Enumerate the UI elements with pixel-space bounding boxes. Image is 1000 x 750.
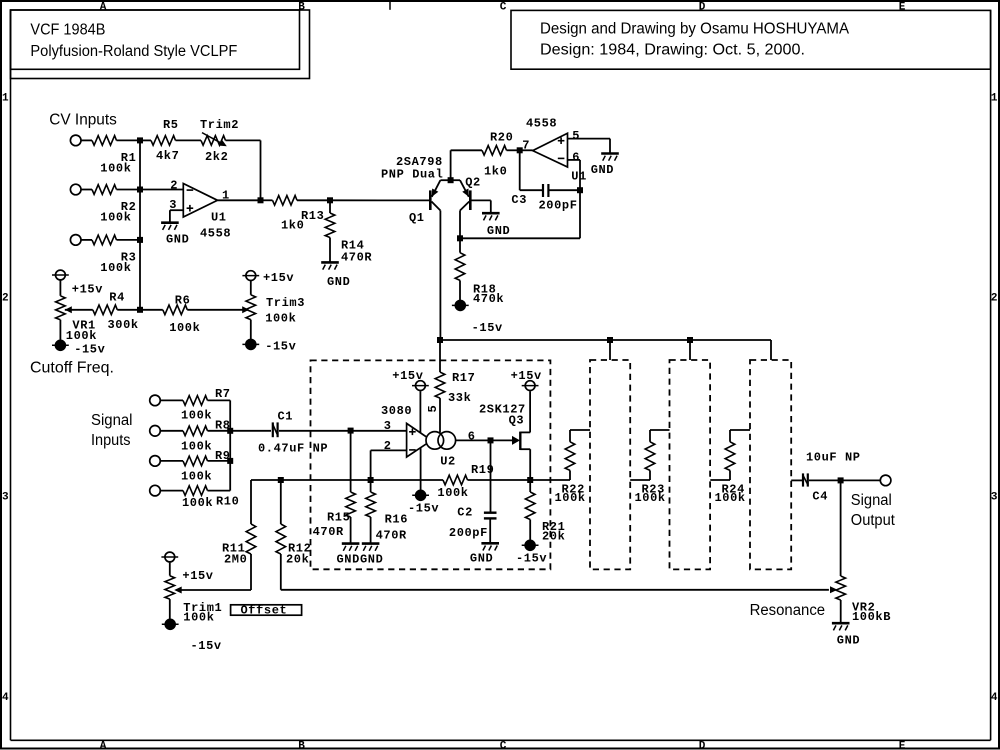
wire (stage feed rail) — [440, 339, 771, 341]
border column letter E top — [899, 1, 906, 13]
node Q3 source junction — [527, 477, 533, 483]
label -15v — [265, 340, 296, 354]
label pin 7 — [522, 139, 530, 153]
wire — [459, 238, 461, 252]
credit text line 2 — [540, 42, 805, 59]
label Trim2 — [200, 118, 239, 132]
border column letter D bottom — [699, 740, 706, 750]
svg-text:4558: 4558 — [526, 117, 557, 131]
svg-text:6: 6 — [468, 429, 476, 443]
wire — [176, 139, 202, 141]
wire — [609, 340, 611, 360]
wire — [160, 460, 183, 462]
svg-text:GND: GND — [337, 553, 360, 567]
svg-text:3: 3 — [991, 492, 998, 504]
svg-text:100k: 100k — [181, 409, 212, 423]
svg-text:100kB: 100kB — [852, 610, 891, 624]
svg-text:2: 2 — [170, 178, 178, 192]
svg-text:4: 4 — [2, 692, 9, 704]
wire — [370, 480, 372, 492]
resistor R2 — [92, 185, 117, 195]
label R18 value 470k — [473, 292, 504, 306]
label R16 — [385, 513, 408, 527]
signal input jack 4 — [150, 485, 161, 496]
wire — [840, 480, 842, 576]
capacitor C4 — [803, 473, 808, 486]
svg-text:100k: 100k — [182, 496, 213, 510]
op-amp U2 (3080 OTA) — [407, 423, 456, 457]
label R5 — [163, 118, 179, 132]
label C3 — [511, 193, 527, 207]
wire — [179, 589, 252, 591]
power +15v (Q3) — [522, 381, 539, 391]
node U2 pin3 junction — [348, 428, 354, 434]
svg-text:Trim2: Trim2 — [200, 118, 239, 132]
wire — [519, 150, 521, 190]
wire — [226, 139, 261, 141]
node op-amp output — [258, 197, 264, 203]
label VR1 value 100k — [66, 329, 97, 343]
wire — [470, 199, 491, 201]
resistor R6 — [163, 305, 188, 315]
label R23 — [642, 483, 665, 497]
Trim1 wiper arrow — [174, 587, 182, 594]
wire — [530, 479, 570, 481]
svg-text:-15v: -15v — [408, 502, 439, 516]
resistor R4 — [93, 305, 118, 315]
svg-text:+15v: +15v — [72, 283, 103, 297]
label R21 — [542, 520, 565, 534]
label Output — [851, 512, 896, 529]
resistor R3 — [92, 235, 117, 245]
label R20 — [490, 131, 513, 145]
svg-text:3080: 3080 — [381, 404, 412, 418]
node pin7 junction — [517, 147, 523, 153]
label R12 value 20k — [286, 553, 309, 567]
wire — [710, 479, 730, 481]
svg-text:Signal: Signal — [851, 492, 892, 509]
wire — [208, 399, 231, 401]
resistor R20 — [482, 146, 507, 156]
wire — [649, 430, 651, 442]
svg-text:300k: 300k — [108, 318, 139, 332]
wire (resonance feedback) — [281, 589, 829, 591]
label GND — [470, 552, 493, 566]
wire — [520, 149, 533, 151]
border column letter A top — [100, 1, 107, 13]
svg-text:+15v: +15v — [511, 369, 542, 383]
wire — [809, 479, 841, 481]
wire — [459, 211, 461, 239]
node CV bus 2 — [137, 187, 143, 193]
border row number 2 left — [2, 292, 9, 304]
svg-text:U2: U2 — [440, 454, 456, 468]
label pin 6 — [572, 150, 580, 164]
label +15v — [72, 283, 103, 297]
wire — [261, 199, 273, 201]
wire — [459, 280, 461, 300]
wire — [529, 391, 531, 432]
label GND — [327, 275, 350, 289]
svg-text:B: B — [298, 1, 305, 13]
label U1 — [211, 211, 227, 225]
label R13 — [301, 209, 324, 223]
signal input jack 1 — [150, 395, 161, 406]
resistor R15 — [346, 492, 356, 517]
border inner frame right line — [990, 10, 992, 740]
label R18 — [473, 283, 496, 297]
svg-text:C2: C2 — [457, 506, 473, 520]
wire — [450, 150, 452, 180]
power +15v (VR1) — [52, 270, 69, 280]
label 2SK127 — [479, 402, 526, 416]
svg-text:A: A — [100, 1, 107, 13]
border inner frame left line — [10, 10, 12, 740]
border row number 1 left — [2, 93, 9, 105]
svg-text:6: 6 — [572, 150, 580, 164]
node R16 junction — [368, 477, 374, 483]
Trim3 wiper arrow — [242, 306, 249, 313]
wire — [650, 429, 670, 431]
svg-text:0.47uF NP: 0.47uF NP — [258, 442, 328, 456]
label +15v — [511, 369, 542, 383]
svg-text:VCF 1984B: VCF 1984B — [30, 21, 105, 38]
label pin 1 — [222, 188, 230, 202]
label C1 — [278, 410, 294, 424]
svg-text:Cutoff Freq.: Cutoff Freq. — [30, 360, 114, 377]
svg-text:100k: 100k — [181, 440, 212, 454]
svg-text:D: D — [699, 740, 706, 750]
wire — [791, 479, 802, 481]
label +15v — [182, 569, 213, 583]
label Resonance — [750, 602, 826, 619]
signal output jack — [880, 475, 891, 486]
svg-text:1: 1 — [991, 93, 998, 105]
svg-text:1k0: 1k0 — [281, 219, 304, 233]
label R15 value 470R — [313, 525, 344, 539]
label R21 value 20k — [542, 530, 565, 544]
label pin 3 — [169, 198, 177, 212]
node signal bus R9 — [227, 458, 233, 464]
title block box — [11, 10, 300, 69]
resistor R23 — [645, 442, 655, 471]
label pin 5 (rotated) — [426, 405, 440, 413]
wire — [250, 281, 252, 295]
svg-text:4k7: 4k7 — [156, 149, 179, 163]
svg-text:2: 2 — [991, 292, 998, 304]
node U2 output — [488, 437, 494, 443]
svg-text:100k: 100k — [715, 491, 746, 505]
svg-text:Design: 1984, Drawing: Oct. 5: Design: 1984, Drawing: Oct. 5, 2000. — [540, 42, 805, 59]
wire — [371, 449, 407, 451]
VR1 wiper arrow — [65, 306, 72, 313]
wire — [297, 199, 330, 201]
svg-text:R4: R4 — [109, 291, 125, 305]
label 4558 — [200, 227, 231, 241]
wire — [170, 209, 183, 211]
svg-text:4558: 4558 — [200, 227, 231, 241]
wire — [730, 429, 750, 431]
svg-text:R5: R5 — [163, 118, 179, 132]
wire — [570, 429, 590, 431]
wire — [468, 479, 531, 481]
label CV Inputs — [49, 112, 117, 129]
potentiometer VR1 — [56, 296, 66, 320]
node rail 1 — [437, 337, 443, 343]
svg-text:A: A — [100, 740, 107, 750]
label R22 — [562, 483, 585, 497]
label -15v — [191, 639, 222, 653]
ground (R16) — [362, 544, 380, 551]
svg-text:GND: GND — [837, 634, 860, 648]
resistor R19 feed wire — [371, 479, 443, 481]
label C2 value 200pF — [449, 526, 488, 540]
label VR2 value 100kB — [852, 610, 891, 624]
trimmer Trim1 — [165, 576, 175, 599]
wire — [439, 211, 441, 341]
power -15v (R18) — [452, 300, 469, 310]
label -15v — [472, 321, 503, 335]
border column letter E bottom — [899, 740, 906, 750]
label Q1 — [409, 211, 425, 225]
wire — [770, 340, 772, 360]
svg-text:C1: C1 — [278, 410, 294, 424]
label VR2 — [852, 601, 875, 615]
transistor Q1 (PNP) — [430, 180, 450, 210]
wire — [117, 139, 141, 141]
svg-text:R19: R19 — [471, 463, 494, 477]
svg-text:100k: 100k — [181, 470, 212, 484]
label R17 value 33k — [448, 391, 471, 405]
wire — [569, 470, 571, 480]
label pin 2 — [384, 439, 392, 453]
border tick top — [389, 2, 391, 10]
svg-text:1k0: 1k0 — [484, 165, 507, 179]
label R19 — [471, 463, 494, 477]
title text Polyfusion-Roland Style VCLPF — [30, 43, 237, 60]
resistor R10 — [183, 486, 208, 496]
dashed box filter stage 3 — [670, 360, 711, 569]
wire — [489, 519, 491, 543]
power +15v (U2) — [412, 381, 429, 391]
border row number 4 left — [2, 692, 9, 704]
VR2 wiper arrow — [830, 586, 838, 593]
dashed box filter stage 1 — [311, 360, 551, 569]
svg-text:R17: R17 — [452, 371, 475, 385]
CV input jack 1 — [70, 135, 81, 146]
wire — [250, 554, 252, 590]
label R11 value 2M0 — [224, 553, 247, 567]
svg-text:Polyfusion-Roland Style VCLPF: Polyfusion-Roland Style VCLPF — [30, 43, 237, 60]
wire — [260, 140, 262, 200]
svg-text:100k: 100k — [66, 329, 97, 343]
resistor R9 — [183, 456, 208, 466]
wire — [568, 159, 581, 161]
op-amp U1 (first half, 4558) — [183, 184, 217, 218]
svg-text:470R: 470R — [313, 525, 344, 539]
CV input jack 3 — [70, 235, 81, 246]
svg-text:2M0: 2M0 — [224, 553, 247, 567]
svg-text:E: E — [899, 740, 906, 750]
svg-text:100k: 100k — [183, 611, 214, 625]
svg-text:100k: 100k — [169, 321, 200, 335]
svg-text:R15: R15 — [327, 511, 350, 525]
label pin 2 — [170, 178, 178, 192]
label C1 value 0.47uF NP — [258, 442, 328, 456]
label +15v — [392, 369, 423, 383]
node CV bus 4 — [137, 307, 143, 313]
svg-text:Q2: Q2 — [465, 176, 481, 190]
svg-text:B: B — [298, 740, 305, 750]
label R11 — [222, 542, 245, 556]
potentiometer VR2 — [836, 576, 846, 600]
svg-text:Q3: Q3 — [509, 414, 525, 428]
wire — [169, 599, 171, 619]
wire — [351, 430, 407, 432]
power -15v (Trim3) — [242, 339, 259, 349]
Offset label box — [231, 605, 302, 615]
svg-text:GND: GND — [487, 224, 510, 238]
label R1 — [121, 151, 137, 165]
label R14 — [341, 239, 364, 253]
wire — [117, 239, 141, 241]
svg-text:R10: R10 — [216, 495, 239, 509]
wire — [81, 239, 92, 241]
svg-text:Signal: Signal — [91, 412, 133, 429]
label pin 6 — [468, 429, 476, 443]
label Q3 — [509, 414, 525, 428]
svg-text:C3: C3 — [511, 193, 527, 207]
node C3 junction — [577, 187, 583, 193]
label 4558 — [526, 117, 557, 131]
svg-text:U1: U1 — [211, 211, 227, 225]
wire — [490, 440, 492, 511]
ground (U1 pin3) — [161, 223, 179, 230]
label PNP Dual — [381, 168, 443, 182]
node signal bus R8 — [227, 428, 233, 434]
trimmer Trim2 — [201, 133, 227, 147]
capacitor C2 — [484, 513, 497, 519]
label R1 value 100k — [100, 161, 131, 175]
svg-text:C: C — [500, 1, 507, 13]
wire — [250, 320, 252, 340]
wire — [140, 189, 183, 191]
label -15v — [74, 343, 105, 357]
label U2 — [440, 454, 456, 468]
label Signal (inputs) — [91, 412, 133, 429]
wire — [117, 309, 163, 311]
svg-text:Inputs: Inputs — [91, 432, 131, 449]
label R8 value 100k — [181, 440, 212, 454]
svg-text:Trim3: Trim3 — [266, 296, 305, 310]
wire — [420, 448, 422, 490]
border row number 3 left — [2, 492, 9, 504]
svg-text:5: 5 — [572, 129, 580, 143]
wire — [520, 189, 542, 191]
resistor R5 — [151, 136, 176, 146]
svg-text:Design and Drawing by Osamu HO: Design and Drawing by Osamu HOSHUYAMA — [540, 21, 850, 38]
label R8 — [215, 419, 231, 433]
signal summing bus wire — [229, 400, 231, 490]
svg-text:Output: Output — [851, 512, 896, 529]
dashed box filter stage 2 — [590, 360, 630, 569]
svg-text:R6: R6 — [175, 294, 191, 308]
ground (U1 pin5) — [601, 154, 619, 161]
label R13 value 1k0 — [281, 219, 304, 233]
capacitor C3 — [543, 184, 548, 197]
label R2 — [121, 200, 137, 214]
label Inputs — [91, 432, 131, 449]
label Trim1 — [183, 601, 222, 615]
node output junction — [838, 477, 844, 483]
svg-text:100k: 100k — [100, 261, 131, 275]
trimmer Trim3 — [246, 295, 256, 320]
svg-text:2k2: 2k2 — [205, 150, 228, 164]
signal input jack 3 — [150, 456, 161, 467]
svg-text:4: 4 — [991, 692, 998, 704]
wire — [569, 430, 571, 442]
svg-text:+15v: +15v — [263, 271, 294, 285]
svg-text:D: D — [699, 1, 706, 13]
wire — [208, 430, 231, 432]
border column letter B bottom — [298, 740, 305, 750]
svg-text:-15v: -15v — [265, 340, 296, 354]
label GND — [591, 163, 614, 177]
label R24 value 100k — [715, 491, 746, 505]
op-amp U1 (second half, 4558) — [533, 133, 568, 167]
wire — [140, 139, 151, 141]
svg-text:Q1: Q1 — [409, 211, 425, 225]
label R9 — [215, 449, 231, 463]
svg-text:R16: R16 — [385, 513, 408, 527]
label U1 — [571, 170, 587, 184]
wire — [350, 517, 352, 544]
label R24 — [722, 483, 745, 497]
wire — [330, 199, 429, 201]
svg-text:C: C — [500, 740, 507, 750]
wire — [451, 149, 482, 151]
svg-text:5: 5 — [426, 405, 440, 413]
label 3080 — [381, 404, 412, 418]
label Trim3 value 100k — [265, 312, 296, 326]
svg-text:-15v: -15v — [74, 343, 105, 357]
node R13/R14 junction — [327, 197, 333, 203]
label R17 — [452, 371, 475, 385]
resistor R21 — [525, 492, 535, 520]
svg-text:PNP Dual: PNP Dual — [381, 168, 443, 182]
label C2 — [457, 506, 473, 520]
label pin 5 — [572, 129, 580, 143]
label R7 — [215, 387, 231, 401]
wire — [529, 449, 531, 480]
wire — [65, 309, 93, 311]
wire — [841, 479, 881, 481]
svg-text:CV Inputs: CV Inputs — [49, 112, 117, 129]
label R4 — [109, 291, 125, 305]
resistor R22 — [565, 442, 575, 471]
power -15v (Trim1) — [162, 619, 179, 629]
wire — [649, 470, 651, 480]
label Signal (output) — [851, 492, 892, 509]
label Cutoff Freq. — [30, 360, 114, 377]
resistor R19 — [443, 475, 468, 485]
power +15v (Trim3) — [242, 271, 259, 281]
wire — [529, 520, 531, 541]
label R3 value 100k — [100, 261, 131, 275]
label R6 value 100k — [169, 321, 200, 335]
svg-text:470R: 470R — [341, 251, 372, 265]
wire — [230, 430, 271, 432]
